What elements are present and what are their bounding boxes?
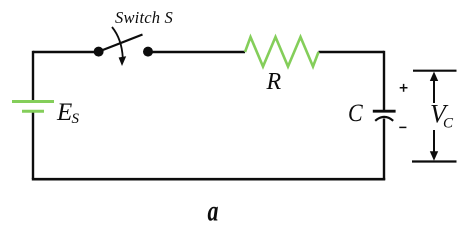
svg-text:E: E [56,99,72,126]
svg-text:C: C [443,116,454,132]
svg-text:C: C [348,100,363,128]
svg-text:Switch S: Switch S [115,8,173,27]
svg-text:R: R [266,69,282,95]
svg-text:S: S [72,111,80,127]
svg-text:a: a [208,194,219,227]
